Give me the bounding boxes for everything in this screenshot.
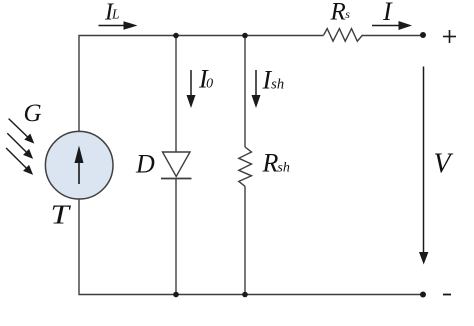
terminal dot +	[420, 32, 426, 38]
svg-text:T: T	[51, 200, 72, 230]
arrow Ish (shunt current)	[252, 70, 261, 108]
node junction dot top Rsh	[242, 33, 248, 39]
wire left vertical bottom (current source to bottom rail)	[79, 199, 423, 295]
G irradiance arrow 2	[7, 133, 33, 159]
G irradiance arrow 3	[6, 148, 33, 175]
label plus terminal	[443, 30, 456, 43]
wire Rsh branch upper	[244, 36, 246, 148]
arrow I0 (diode current)	[187, 70, 196, 108]
svg-text:Rsh: Rsh	[262, 149, 290, 178]
arrow V (voltage, downward)	[419, 67, 428, 265]
resistor Rs (zigzag)	[324, 29, 363, 42]
wire top-left horizontal (node A to Rs)	[79, 36, 324, 132]
arrow IL (current direction)	[99, 21, 138, 30]
resistor Rsh (zigzag)	[239, 147, 252, 186]
svg-text:Rs: Rs	[330, 0, 351, 25]
wire diode branch upper	[175, 36, 177, 153]
svg-text:G: G	[24, 100, 42, 127]
wire top-right (Rs to + terminal)	[362, 35, 423, 37]
node junction dot top diode	[173, 33, 179, 39]
terminal dot -	[420, 292, 426, 298]
svg-text:IL: IL	[104, 0, 120, 26]
wire Rsh branch lower	[244, 186, 246, 294]
svg-text:Ish: Ish	[262, 66, 285, 95]
wire diode branch lower	[175, 179, 177, 295]
node junction dot bottom Rsh	[242, 292, 248, 298]
label minus terminal	[443, 294, 451, 296]
svg-text:V: V	[434, 149, 454, 180]
current source U1 (photocurrent source)	[45, 131, 113, 199]
svg-text:I0: I0	[198, 65, 213, 94]
arrow I (output current)	[372, 21, 412, 30]
G irradiance arrow 1	[9, 119, 35, 144]
diode D	[161, 152, 192, 179]
node junction dot bottom diode	[173, 292, 179, 298]
svg-text:I: I	[382, 0, 393, 26]
svg-text:D: D	[135, 149, 155, 178]
